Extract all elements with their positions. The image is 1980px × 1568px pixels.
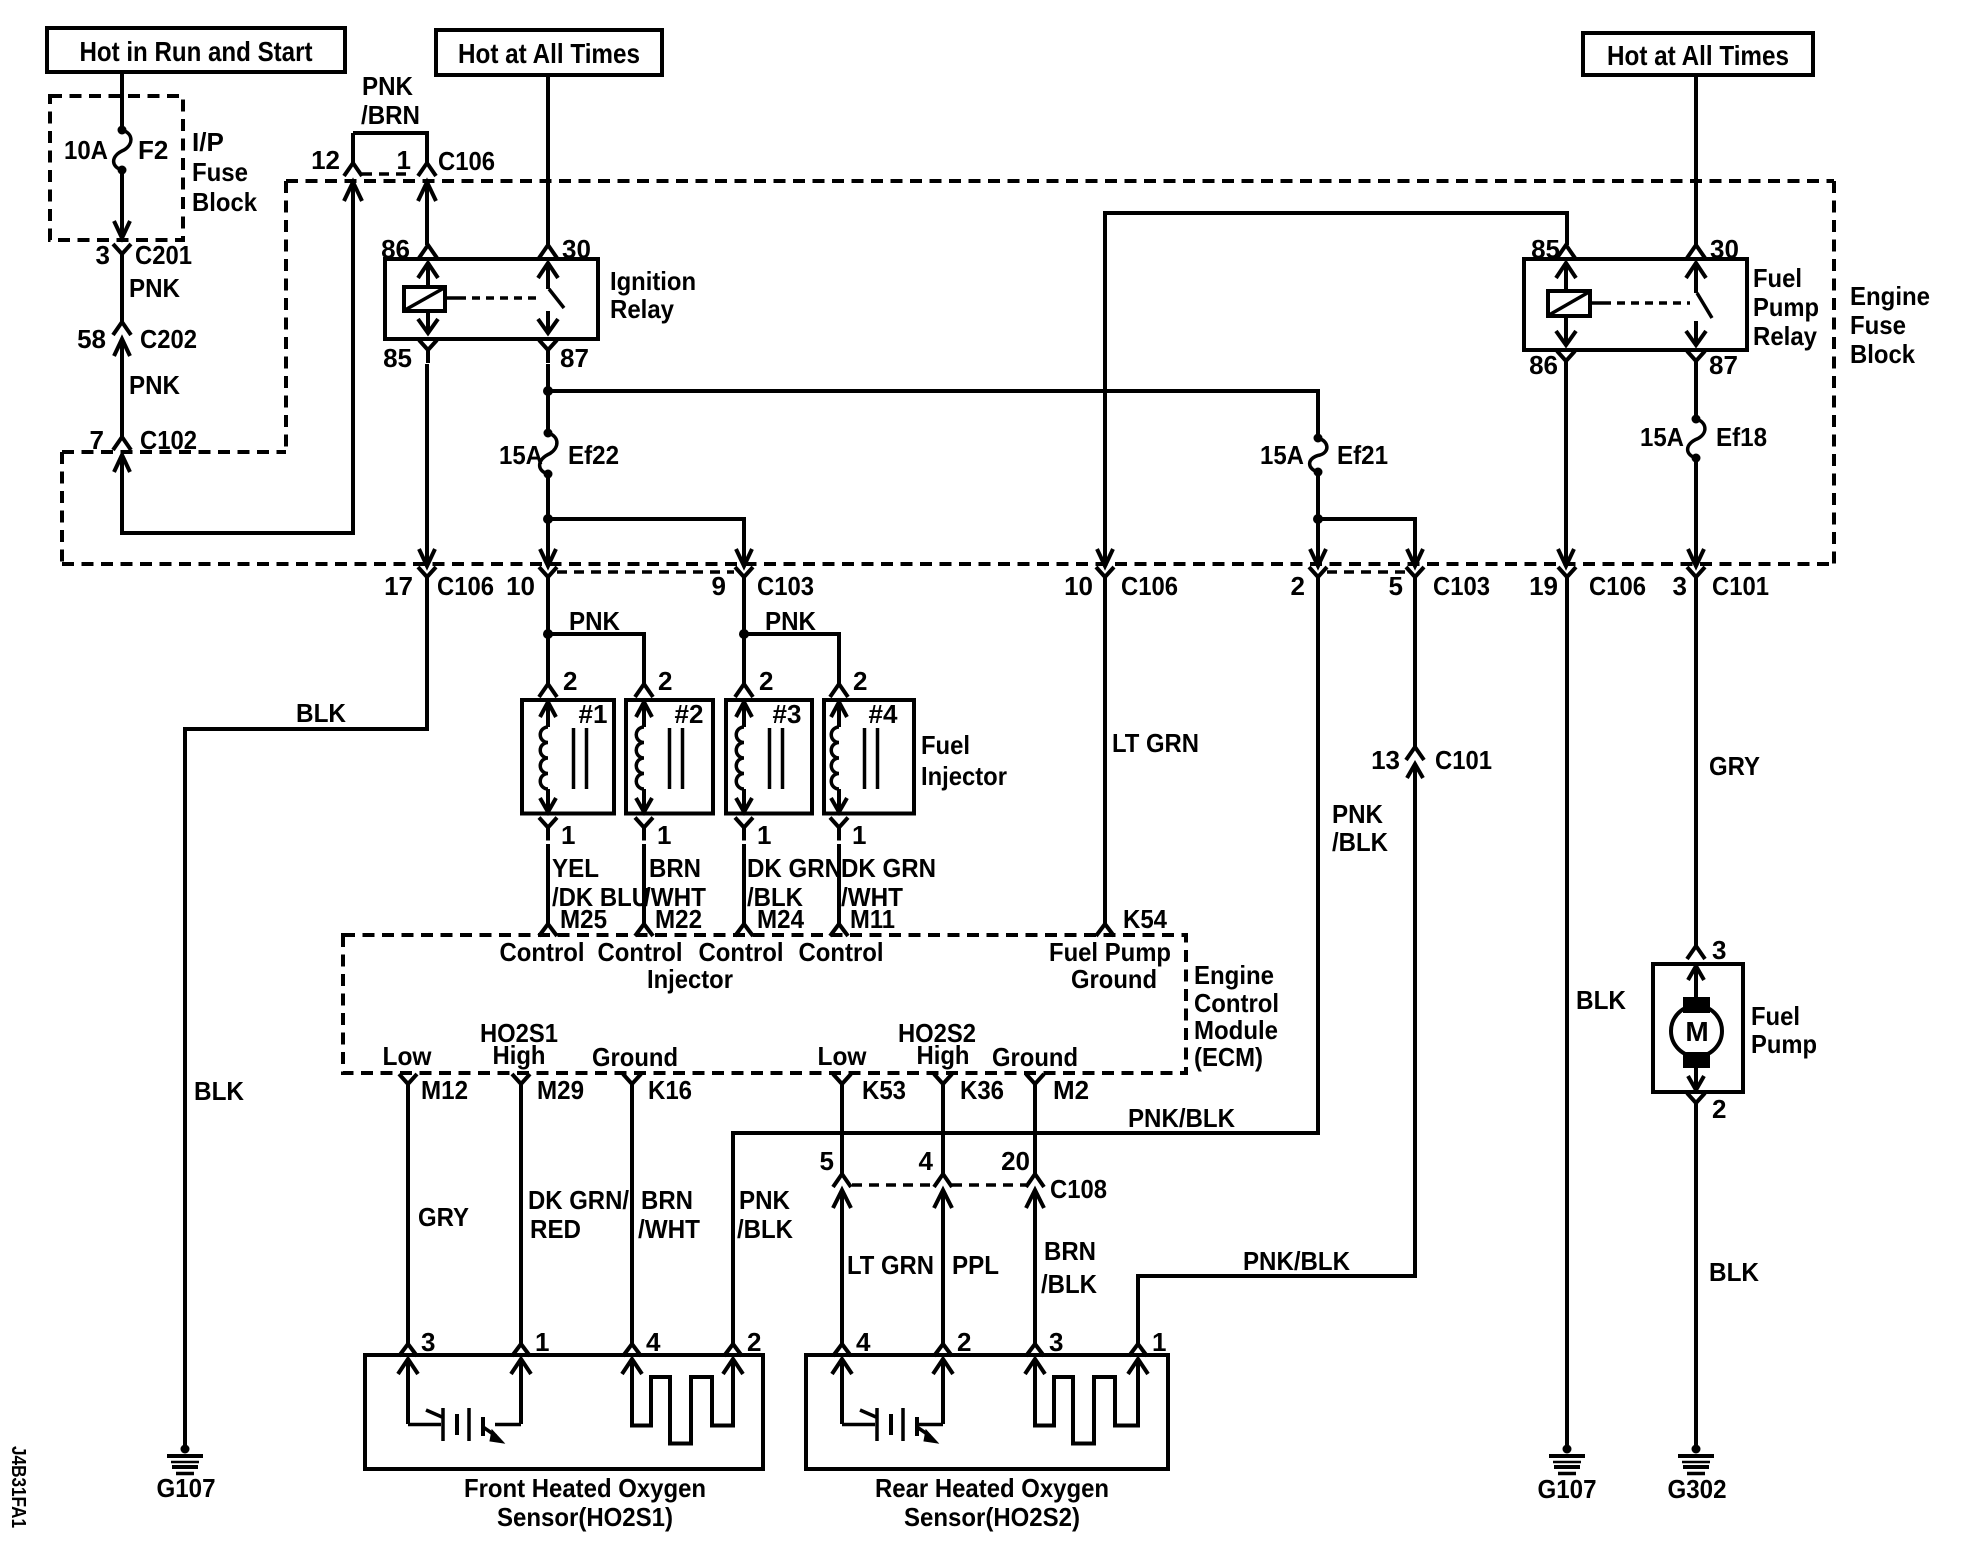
svg-text:2: 2: [759, 666, 773, 696]
svg-text:10: 10: [1064, 571, 1093, 601]
svg-text:Hot in Run and Start: Hot in Run and Start: [80, 36, 313, 67]
connector C106 pins 12-1 tie: [362, 172, 412, 176]
svg-text:PNK/BLK: PNK/BLK: [1128, 1103, 1235, 1133]
wire DK GRN/RED: ECM M29 to HO2S1 pin 1: [521, 1097, 629, 1344]
svg-text:Ground: Ground: [992, 1042, 1078, 1072]
wire: Ef22 to connector C106 pin 10, junction to C103 pin 9: [540, 476, 556, 566]
svg-text:5: 5: [820, 1146, 834, 1176]
wire YEL/DK BLU: injector 1 to ECM M25: [548, 844, 649, 924]
power label: Hot in Run and Start: [47, 28, 345, 72]
wire DK GRN/BLK: injector 3 to ECM M24: [744, 844, 842, 924]
wire: Hot in Run and Start to fuse F2: [120, 72, 124, 127]
svg-text:YEL: YEL: [552, 853, 599, 883]
svg-text:Front Heated Oxygen: Front Heated Oxygen: [464, 1473, 706, 1503]
svg-text:17: 17: [384, 571, 413, 601]
wire: C108-4 to HO2S2 pin 2: [941, 1208, 945, 1344]
fuse F2 10A: [64, 126, 168, 175]
power label: Hot at All Times (center): [436, 30, 662, 75]
fuel pump relay pin 86: [1529, 350, 1575, 380]
injector 2 pin 2: [635, 666, 672, 697]
wire PNK: C103-9 to injectors 3 and 4: [739, 590, 839, 684]
svg-text:C201: C201: [135, 240, 192, 270]
wire: C102 down and right to connector C106 pin 12: [122, 182, 362, 533]
svg-text:1: 1: [1152, 1327, 1166, 1357]
svg-text:Ef21: Ef21: [1337, 440, 1388, 470]
fuse Ef21 15A: [1260, 434, 1388, 477]
ECM internal labels: [383, 937, 1172, 1072]
ground G107 (left): [157, 1445, 216, 1504]
HO2S2 heater element: [1025, 1359, 1148, 1444]
svg-text:C101: C101: [1435, 745, 1492, 775]
svg-text:Block: Block: [192, 187, 257, 217]
fuel injector #2: [626, 699, 713, 814]
svg-text:19: 19: [1529, 571, 1558, 601]
wire: branch from relay 87 junction to fuse Ef21: [548, 391, 1318, 435]
connector C103 pin 5: [1389, 567, 1490, 601]
wire LT GRN: ECM K54 up through C106 pin 10 to fuel pump relay pin 85: [1105, 590, 1199, 924]
svg-text:4: 4: [856, 1327, 871, 1357]
connector C101 pin 13: [1371, 745, 1492, 778]
fuse Ef18 15A: [1640, 415, 1767, 463]
connector C106 pin 12: [311, 133, 362, 176]
power label: Hot at All Times (right): [1583, 33, 1813, 75]
wire BLK: relay 86 to C106 pin 19 and ground G107: [1558, 374, 1626, 1015]
Engine Control Module (ECM) dashed outline: [343, 935, 1279, 1073]
wire PNK/BLK: C103-2 down to HO2S1 heater: [733, 590, 1388, 1344]
svg-text:2: 2: [957, 1327, 971, 1357]
svg-text:/BLK: /BLK: [1041, 1269, 1097, 1299]
svg-text:86: 86: [1529, 350, 1558, 380]
HO2S2 pin 2: [934, 1327, 971, 1357]
svg-text:58: 58: [77, 324, 106, 354]
wire: branch to connector C103 pin 9: [548, 519, 752, 566]
rear heated oxygen sensor HO2S2: [806, 1355, 1168, 1532]
wire: relay 87 to fuse Ef18: [1694, 374, 1698, 415]
Engine Fuse Block dashed outline: [62, 181, 1930, 564]
ECM pin K16: [623, 1074, 692, 1105]
wire: C106-19 to ground G107 (right): [1565, 590, 1569, 1445]
svg-text:K54: K54: [1123, 904, 1167, 934]
svg-text:RED: RED: [530, 1214, 581, 1244]
svg-text:Pump: Pump: [1753, 292, 1819, 322]
svg-text:1: 1: [657, 820, 671, 850]
HO2S2 sensing cell: [832, 1359, 953, 1443]
svg-text:Hot at All Times: Hot at All Times: [1607, 40, 1789, 71]
ignition relay: [385, 259, 696, 339]
drawing id J4B31FA1: [7, 1446, 29, 1528]
svg-text:Fuse: Fuse: [1850, 310, 1906, 340]
svg-text:15A: 15A: [1640, 422, 1684, 452]
svg-text:Ef22: Ef22: [568, 440, 619, 470]
wire PNK: C201 to C202: [122, 267, 180, 322]
injector 4 pin 1: [830, 818, 866, 851]
connector C102 pin 7: [90, 425, 197, 472]
connector C106/C103 tie (pins 10-9): [557, 570, 734, 574]
svg-text:12: 12: [311, 145, 340, 175]
wire: C106-10 up and across to relay pin 85: [1097, 213, 1567, 566]
svg-text:Rear Heated Oxygen: Rear Heated Oxygen: [875, 1473, 1109, 1503]
svg-text:Fuel: Fuel: [1753, 263, 1802, 293]
svg-text:Low: Low: [818, 1041, 868, 1071]
svg-text:K16: K16: [648, 1075, 692, 1105]
wire BLK: fuel pump to ground G302: [1696, 1116, 1759, 1445]
svg-text:Relay: Relay: [610, 294, 674, 324]
svg-text:9: 9: [712, 571, 726, 601]
svg-text:LT GRN: LT GRN: [847, 1250, 934, 1280]
fuel pump pin 2: [1687, 1093, 1726, 1124]
svg-text:K36: K36: [960, 1075, 1004, 1105]
svg-text:1: 1: [852, 820, 866, 850]
connector C201 pin 3: [96, 240, 192, 270]
svg-text:Control: Control: [799, 937, 884, 967]
svg-text:Engine: Engine: [1850, 281, 1930, 311]
svg-text:BRN: BRN: [1044, 1236, 1096, 1266]
ignition relay pin 86: [381, 234, 437, 264]
svg-text:High: High: [917, 1040, 970, 1070]
injector 4 pin 2: [830, 666, 867, 697]
svg-text:BLK: BLK: [296, 698, 346, 728]
svg-text:2: 2: [658, 666, 672, 696]
fuel pump relay pin 30: [1687, 234, 1739, 264]
svg-text:1: 1: [535, 1327, 549, 1357]
wire GRY: C101-3 to fuel pump pin 3: [1696, 590, 1760, 946]
svg-text:K53: K53: [862, 1075, 906, 1105]
ground G107 (right): [1538, 1445, 1597, 1505]
wire: fuse F2 to connector C201: [114, 172, 130, 238]
svg-text:PPL: PPL: [952, 1250, 999, 1280]
svg-text:/BLK: /BLK: [1332, 827, 1388, 857]
wire PNK/BLK: C103-5 to connector C101 pin 13: [1413, 590, 1417, 747]
I/P Fuse Block dashed outline: [50, 96, 257, 240]
svg-text:Sensor(HO2S1): Sensor(HO2S1): [497, 1502, 673, 1532]
wire: Hot at All Times (right) to fuel pump relay pin 30: [1694, 75, 1698, 245]
svg-text:Engine: Engine: [1194, 960, 1274, 990]
connector C103 pin 2: [1291, 567, 1327, 601]
svg-text:BLK: BLK: [194, 1076, 244, 1106]
svg-text:Block: Block: [1850, 339, 1915, 369]
svg-text:Ground: Ground: [592, 1042, 678, 1072]
svg-text:BRN: BRN: [641, 1185, 693, 1215]
svg-text:3: 3: [421, 1327, 435, 1357]
svg-text:C103: C103: [757, 571, 814, 601]
wire LT GRN: ECM K53 to C108 pin 5: [842, 1097, 934, 1280]
svg-text:C106: C106: [1589, 571, 1646, 601]
HO2S1 pin 2: [724, 1327, 761, 1357]
svg-text:Fuel: Fuel: [1751, 1001, 1800, 1031]
svg-text:86: 86: [381, 234, 410, 264]
HO2S1 sensing cell: [398, 1359, 531, 1443]
connector C108 pin 5: [820, 1146, 851, 1208]
svg-text:BLK: BLK: [1709, 1257, 1759, 1287]
wire GRY: ECM M12 to HO2S1 pin 3: [408, 1097, 469, 1344]
wire: branch to connector C103 pin 5: [1318, 519, 1423, 566]
svg-text:2: 2: [853, 666, 867, 696]
svg-text:C108: C108: [1050, 1174, 1107, 1204]
wire: Hot at All Times to ignition relay pin 30: [546, 75, 550, 245]
svg-text:Control: Control: [1194, 988, 1279, 1018]
svg-text:PNK: PNK: [129, 273, 180, 303]
connector C106 pin 10 (fuel pump relay control): [1064, 567, 1178, 601]
svg-text:1: 1: [561, 820, 575, 850]
ECM pin M25: [539, 904, 607, 936]
connector C202 pin 58: [77, 322, 197, 356]
injector 3 pin 2: [735, 666, 773, 697]
svg-text:/WHT: /WHT: [638, 1214, 700, 1244]
svg-text:G107: G107: [157, 1473, 216, 1503]
svg-text:#3: #3: [773, 699, 802, 729]
svg-text:2: 2: [1291, 571, 1305, 601]
wire PNK/BRN jumper bracket: [353, 71, 427, 163]
svg-text:Fuel Pump: Fuel Pump: [1049, 937, 1171, 967]
svg-text:M2: M2: [1053, 1075, 1089, 1105]
svg-text:4: 4: [919, 1146, 934, 1176]
svg-text:PNK: PNK: [362, 71, 413, 101]
wire label PNK/BLK on HO2S1 pin 2 wire: [737, 1185, 793, 1244]
HO2S1 pin 3: [399, 1327, 435, 1357]
svg-text:Relay: Relay: [1753, 321, 1817, 351]
wire PNK/BLK: C101-13 to HO2S2 pin 1: [1138, 778, 1415, 1344]
svg-text:5: 5: [1389, 571, 1403, 601]
svg-text:10: 10: [506, 571, 535, 601]
svg-text:87: 87: [1709, 350, 1738, 380]
svg-text:Control: Control: [598, 937, 683, 967]
svg-text:4: 4: [646, 1327, 661, 1357]
ignition relay pin 87: [539, 340, 589, 373]
svg-text:13: 13: [1371, 745, 1400, 775]
svg-text:Low: Low: [383, 1041, 433, 1071]
svg-text:DK GRN: DK GRN: [747, 853, 842, 883]
svg-text:Injector: Injector: [921, 761, 1007, 791]
svg-text:DK GRN/: DK GRN/: [528, 1185, 629, 1215]
ground G302: [1668, 1445, 1727, 1505]
svg-text:C106: C106: [1121, 571, 1178, 601]
injector 2 pin 1: [635, 818, 671, 851]
HO2S2 pin 3: [1026, 1327, 1063, 1357]
svg-text:#1: #1: [579, 699, 608, 729]
svg-text:20: 20: [1001, 1146, 1030, 1176]
Fuel Injector label: [921, 730, 1007, 791]
svg-text:PNK: PNK: [129, 370, 180, 400]
svg-text:I/P: I/P: [192, 127, 224, 157]
svg-text:LT GRN: LT GRN: [1112, 728, 1199, 758]
ECM pin M11: [830, 904, 895, 936]
wire DK GRN/WHT: injector 4 to ECM M11: [839, 844, 936, 924]
wire BRN/WHT: injector 2 to ECM M22: [644, 844, 706, 924]
svg-text:10A: 10A: [64, 135, 108, 165]
fuel injector #1: [522, 699, 614, 814]
svg-text:PNK: PNK: [1332, 799, 1383, 829]
svg-text:Fuel: Fuel: [921, 730, 970, 760]
svg-text:Fuse: Fuse: [192, 157, 248, 187]
svg-text:Pump: Pump: [1751, 1029, 1817, 1059]
svg-text:1: 1: [397, 145, 411, 175]
svg-text:M: M: [1685, 1016, 1708, 1047]
svg-text:DK GRN: DK GRN: [841, 853, 936, 883]
svg-text:M22: M22: [655, 904, 702, 934]
wire: ignition relay 87 to fuse Ef22, junction to Ef21 branch: [543, 364, 553, 430]
svg-text:Module: Module: [1194, 1015, 1278, 1045]
connector C106 pin 10 (injector feed): [506, 567, 557, 601]
svg-text:#2: #2: [675, 699, 704, 729]
wire BLK: C106 pin 17 to ground G107: [185, 590, 427, 1445]
connector C106 pin 19: [1529, 567, 1646, 601]
svg-text:PNK: PNK: [569, 606, 620, 636]
wire BRN/WHT: ECM K16 to HO2S1 pin 4: [632, 1097, 700, 1344]
ECM pin M22: [635, 904, 702, 936]
svg-text:Ground: Ground: [1071, 964, 1157, 994]
wire: ignition relay 85 to connector C106 pin 17: [419, 364, 435, 566]
HO2S1 heater element: [622, 1359, 743, 1444]
svg-text:C106: C106: [438, 146, 495, 176]
ECM pin K54: [1096, 904, 1167, 936]
ECM pin M24: [735, 904, 805, 936]
injector 3 pin 1: [735, 818, 771, 851]
wire PPL: ECM K36 to C108 pin 4: [943, 1097, 999, 1280]
svg-text:30: 30: [1710, 234, 1739, 264]
svg-text:/BLK: /BLK: [737, 1214, 793, 1244]
svg-text:1: 1: [757, 820, 771, 850]
svg-text:C103: C103: [1433, 571, 1490, 601]
injector 1 pin 1: [539, 818, 575, 851]
svg-text:3: 3: [1049, 1327, 1063, 1357]
svg-text:F2: F2: [138, 135, 168, 165]
svg-text:M24: M24: [757, 904, 805, 934]
wire: C108-20 to HO2S2 pin 3: [1033, 1208, 1037, 1344]
svg-text:GRY: GRY: [418, 1202, 469, 1232]
HO2S2 pin 1: [1129, 1327, 1166, 1357]
svg-text:85: 85: [383, 343, 412, 373]
svg-text:Injector: Injector: [647, 964, 733, 994]
svg-text:BRN: BRN: [649, 853, 701, 883]
wire BRN/BLK: ECM M2 to C108 pin 20: [1035, 1097, 1097, 1299]
HO2S1 pin 1: [512, 1327, 549, 1357]
svg-text:Sensor(HO2S2): Sensor(HO2S2): [904, 1502, 1080, 1532]
wire PNK: C202 to C102: [122, 352, 180, 438]
svg-text:2: 2: [747, 1327, 761, 1357]
svg-text:85: 85: [1531, 234, 1560, 264]
svg-text:Ef18: Ef18: [1716, 422, 1767, 452]
connector C106 pin 1: [397, 145, 495, 176]
svg-text:M29: M29: [537, 1075, 584, 1105]
svg-text:2: 2: [563, 666, 577, 696]
fuel injector #4: [824, 699, 914, 814]
svg-text:PNK/BLK: PNK/BLK: [1243, 1246, 1350, 1276]
fuel pump motor M: [1653, 964, 1817, 1092]
connector C106 pin 17: [384, 567, 494, 601]
svg-text:High: High: [493, 1040, 546, 1070]
fuse Ef22 15A: [499, 429, 619, 479]
ECM pin M2: [1026, 1074, 1089, 1105]
injector 1 pin 2: [539, 666, 577, 697]
fuel pump relay: [1524, 259, 1819, 351]
ECM pin M29: [512, 1074, 584, 1105]
svg-text:M25: M25: [560, 904, 607, 934]
svg-text:/BRN: /BRN: [361, 100, 420, 130]
ECM pin M12: [399, 1074, 468, 1105]
fuel pump pin 3: [1687, 935, 1726, 965]
svg-text:C101: C101: [1712, 571, 1769, 601]
svg-text:30: 30: [562, 234, 591, 264]
ignition relay pin 30: [539, 234, 591, 264]
connector C108 pin 20: [1001, 1146, 1107, 1208]
svg-text:M12: M12: [421, 1075, 468, 1105]
svg-text:J4B31FA1: J4B31FA1: [7, 1446, 29, 1528]
wire: Ef18 to connector C101 pin 3: [1688, 460, 1704, 566]
wire: Ef21 to connector C103 pin 2, junction to pin 5: [1310, 474, 1326, 566]
svg-text:3: 3: [96, 240, 110, 270]
connector C103 pin 9: [712, 567, 814, 601]
svg-text:Ignition: Ignition: [610, 266, 696, 296]
connector C101 pin 3: [1673, 567, 1769, 601]
svg-text:Control: Control: [699, 937, 784, 967]
svg-text:3: 3: [1673, 571, 1687, 601]
svg-text:(ECM): (ECM): [1194, 1042, 1263, 1072]
svg-text:GRY: GRY: [1709, 751, 1760, 781]
HO2S1 pin 4: [623, 1327, 661, 1357]
svg-text:15A: 15A: [499, 440, 543, 470]
fuel pump relay pin 85: [1531, 234, 1575, 264]
ignition relay pin 85: [383, 340, 437, 373]
svg-text:PNK: PNK: [765, 606, 816, 636]
svg-text:Hot at All Times: Hot at All Times: [458, 38, 640, 69]
ECM pin K53: [833, 1074, 906, 1105]
svg-text:G107: G107: [1538, 1474, 1597, 1504]
connector C103 pins 2-5 tie: [1327, 570, 1405, 574]
svg-text:87: 87: [560, 343, 589, 373]
svg-text:PNK: PNK: [739, 1185, 790, 1215]
svg-text:15A: 15A: [1260, 440, 1304, 470]
svg-text:3: 3: [1712, 935, 1726, 965]
svg-text:C202: C202: [140, 324, 197, 354]
ECM pin K36: [934, 1074, 1004, 1105]
fuel injector #3: [726, 699, 812, 814]
svg-text:Control: Control: [500, 937, 585, 967]
wire: C108-5 to HO2S2 pin 4: [840, 1208, 844, 1344]
connector C108 ties: [852, 1183, 1026, 1187]
svg-text:G302: G302: [1668, 1474, 1727, 1504]
fuel pump relay pin 87: [1687, 350, 1738, 380]
svg-text:2: 2: [1712, 1094, 1726, 1124]
svg-text:M11: M11: [850, 904, 895, 934]
svg-text:C106: C106: [437, 571, 494, 601]
front heated oxygen sensor HO2S1: [365, 1355, 763, 1532]
HO2S2 pin 4: [833, 1327, 871, 1357]
connector C108 pin 4: [919, 1146, 952, 1208]
svg-text:BLK: BLK: [1576, 985, 1626, 1015]
svg-text:#4: #4: [869, 699, 898, 729]
wire: C106 pin 1 to ignition relay pin 86: [418, 182, 436, 245]
wire PNK: C106-10 to injectors 1 and 2: [543, 590, 644, 684]
